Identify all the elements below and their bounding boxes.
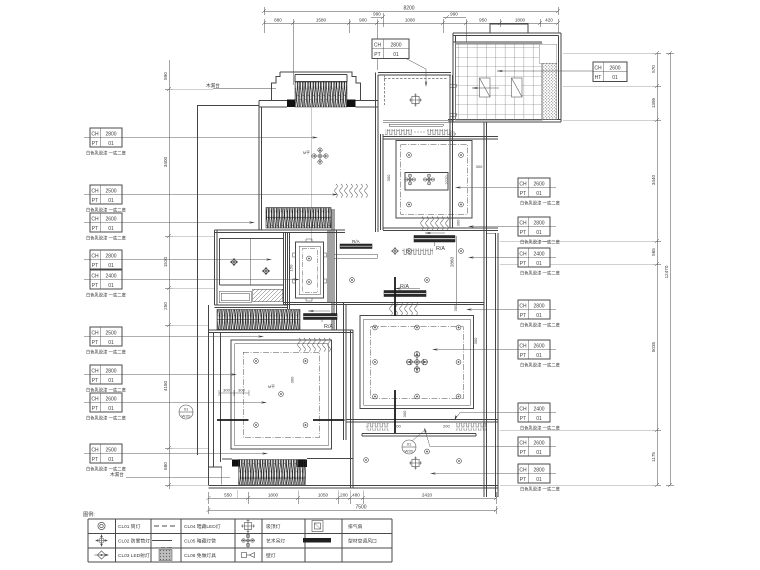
bedroom2 recess dash-dot bbox=[243, 352, 320, 437]
legend table grid bbox=[88, 519, 392, 562]
cabinet box below bathroom bbox=[219, 291, 251, 303]
svg-text:900: 900 bbox=[359, 18, 367, 23]
svg-text:2500: 2500 bbox=[105, 189, 116, 195]
svg-text:300: 300 bbox=[453, 304, 458, 311]
wardrobe hatch master bedroom bbox=[266, 208, 331, 229]
svg-text:CH: CH bbox=[594, 66, 602, 72]
svg-text:2600: 2600 bbox=[533, 182, 544, 188]
svg-text:990: 990 bbox=[373, 12, 381, 17]
balcony window rect 1 bbox=[480, 78, 491, 97]
svg-text:白色乳胶漆 一底二度: 白色乳胶漆 一底二度 bbox=[86, 387, 127, 394]
svg-text:CL06 免做灯具: CL06 免做灯具 bbox=[184, 552, 216, 559]
svg-text:01: 01 bbox=[108, 141, 114, 147]
svg-text:3440: 3440 bbox=[651, 174, 656, 185]
svg-text:01: 01 bbox=[108, 457, 114, 463]
svg-text:1800: 1800 bbox=[268, 493, 279, 498]
svg-text:白色乳胶漆 一底二度: 白色乳胶漆 一底二度 bbox=[520, 239, 561, 246]
svg-text:CH: CH bbox=[374, 43, 382, 49]
svg-text:2400: 2400 bbox=[105, 274, 116, 280]
svg-text:PT: PT bbox=[92, 263, 98, 269]
legend sym exhaust fan bbox=[312, 521, 323, 532]
bedroom2 curtain end block right bbox=[298, 460, 308, 468]
stipple strip balcony right bbox=[542, 63, 557, 120]
svg-text:2800: 2800 bbox=[533, 221, 544, 227]
legend sym CL03 LED spot bbox=[95, 551, 109, 559]
svg-text:PT: PT bbox=[520, 450, 526, 456]
svg-text:2400: 2400 bbox=[533, 407, 544, 413]
svg-text:CL05 暗藏灯管: CL05 暗藏灯管 bbox=[184, 538, 216, 545]
label R6 CH2400 bbox=[453, 403, 560, 432]
svg-text:1175: 1175 bbox=[651, 452, 656, 462]
svg-text:01: 01 bbox=[184, 407, 189, 412]
balcony window rect 2 bbox=[512, 78, 523, 97]
bedroom2 recess outer bbox=[231, 340, 332, 449]
svg-text:2500: 2500 bbox=[105, 448, 116, 454]
svg-text:890: 890 bbox=[163, 72, 168, 80]
svg-text:2600: 2600 bbox=[105, 217, 116, 223]
squiggle marks master bedroom bbox=[335, 184, 368, 198]
legend sym ceiling lamp bbox=[241, 519, 255, 533]
svg-text:2220: 2220 bbox=[444, 175, 449, 185]
svg-text:HT: HT bbox=[595, 75, 602, 81]
svg-text:250: 250 bbox=[163, 302, 168, 310]
svg-text:2800: 2800 bbox=[105, 132, 116, 138]
wall right outer pair bbox=[496, 233, 499, 497]
legend sym CL05 solid line bbox=[152, 540, 172, 542]
label L8 CH2600 bbox=[84, 393, 267, 422]
bedroom2 dim 300 300 bbox=[219, 388, 249, 397]
hall woodgrain band bbox=[217, 310, 300, 330]
svg-text:8200: 8200 bbox=[403, 6, 414, 12]
wall foyer right tabs bbox=[451, 84, 457, 116]
study downlights bbox=[407, 153, 412, 158]
svg-text:480: 480 bbox=[352, 493, 360, 498]
ceiling lamp foyer bbox=[409, 94, 422, 107]
wall right connector bbox=[487, 232, 496, 234]
svg-text:150: 150 bbox=[289, 264, 294, 271]
legend sym CL01 downlight bbox=[98, 522, 105, 529]
bottom chain extension lines bbox=[237, 490, 363, 498]
living section pole bottom bbox=[394, 390, 396, 433]
svg-text:01: 01 bbox=[108, 340, 114, 346]
svg-text:01: 01 bbox=[612, 75, 618, 81]
svg-text:01: 01 bbox=[108, 198, 114, 204]
svg-text:950: 950 bbox=[479, 18, 487, 23]
svg-text:01: 01 bbox=[108, 378, 114, 384]
svg-text:CH: CH bbox=[91, 189, 99, 195]
svg-text:W2D: W2D bbox=[182, 414, 191, 419]
left chain dimension line bbox=[165, 60, 173, 489]
svg-text:PT: PT bbox=[520, 313, 526, 319]
svg-text:2600: 2600 bbox=[105, 397, 116, 403]
svg-text:200: 200 bbox=[443, 424, 450, 429]
wall study bottom bbox=[383, 228, 498, 231]
hall downlight 2 bbox=[425, 278, 430, 283]
living castellated band right bbox=[402, 249, 433, 256]
corridor RA duct bar bbox=[304, 310, 338, 330]
svg-text:300: 300 bbox=[456, 219, 461, 226]
balcony leader arrow bbox=[497, 70, 593, 72]
svg-text:01: 01 bbox=[536, 313, 542, 319]
wall bay window master bedroom bbox=[272, 72, 361, 101]
label T1 CH2800 bbox=[372, 39, 409, 59]
svg-text:CH: CH bbox=[519, 252, 527, 258]
svg-text:CH: CH bbox=[91, 132, 99, 138]
svg-text:CH: CH bbox=[91, 274, 99, 280]
svg-text:白色乳胶漆 一底二度: 白色乳胶漆 一底二度 bbox=[86, 349, 127, 356]
study squiggles bottom bbox=[421, 217, 449, 231]
dining leader diagonal bbox=[412, 429, 426, 441]
wall bedroom2 left bbox=[209, 305, 222, 485]
wall corridor right bbox=[328, 230, 337, 330]
svg-text:01: 01 bbox=[108, 226, 114, 232]
top chain dimension line bbox=[262, 19, 560, 85]
svg-text:白色乳胶漆 一底二度: 白色乳胶漆 一底二度 bbox=[86, 415, 127, 422]
wall bedroom2 top bbox=[209, 330, 354, 333]
wall study top bbox=[383, 137, 498, 140]
bedroom2 section bar left bbox=[217, 419, 249, 421]
label L3 CH2600 bbox=[84, 213, 255, 242]
left chain extension lines bbox=[169, 89, 215, 485]
svg-text:PT: PT bbox=[92, 340, 98, 346]
wall right inner pair bbox=[484, 122, 487, 497]
label R1 CH2600 bbox=[455, 178, 561, 207]
svg-text:CL01 筒灯: CL01 筒灯 bbox=[118, 523, 141, 530]
svg-text:4180: 4180 bbox=[163, 380, 168, 391]
svg-text:300: 300 bbox=[473, 337, 478, 344]
svg-text:3400: 3400 bbox=[163, 156, 168, 167]
svg-text:壁灯: 壁灯 bbox=[266, 552, 276, 559]
living section pole top bbox=[394, 277, 396, 316]
svg-text:1395: 1395 bbox=[651, 97, 656, 108]
label R5 CH2600 bbox=[432, 340, 561, 369]
wardrobe inner line bbox=[266, 217, 331, 219]
svg-text:排气扇: 排气扇 bbox=[348, 523, 363, 530]
centerline corridor extension bbox=[310, 104, 312, 241]
corridor downlight 1 bbox=[307, 256, 312, 261]
svg-text:1580: 1580 bbox=[316, 18, 327, 23]
svg-text:2860: 2860 bbox=[450, 256, 455, 267]
bedroom2 section bar right bbox=[313, 419, 345, 421]
svg-text:M平: M平 bbox=[268, 385, 275, 389]
svg-text:CH: CH bbox=[519, 441, 527, 447]
corridor recess dash-dot bbox=[302, 249, 317, 293]
right chain extension lines bbox=[500, 53, 657, 485]
bedroom2 curtain inner line bbox=[240, 477, 305, 479]
legend sym CL02 fogproof bbox=[96, 535, 108, 547]
svg-text:2600: 2600 bbox=[533, 344, 544, 350]
svg-text:12470: 12470 bbox=[664, 265, 669, 278]
svg-text:PT: PT bbox=[520, 191, 526, 197]
living pelmet lines left bbox=[334, 254, 377, 259]
leader from top label to foyer lamp bbox=[406, 59, 427, 88]
svg-text:PT: PT bbox=[520, 477, 526, 483]
svg-text:艺术吊灯: 艺术吊灯 bbox=[266, 538, 285, 545]
svg-text:300: 300 bbox=[290, 376, 295, 383]
dining downlight 2 bbox=[457, 459, 462, 464]
svg-text:R/A: R/A bbox=[436, 246, 445, 252]
svg-text:PT: PT bbox=[92, 283, 98, 289]
svg-text:白色乳胶漆 一底二度: 白色乳胶漆 一底二度 bbox=[520, 322, 561, 329]
svg-text:PT: PT bbox=[92, 226, 98, 232]
svg-text:CH: CH bbox=[91, 254, 99, 260]
wall living room bottom / dining top bbox=[346, 420, 498, 423]
bedroom2 downlights bbox=[254, 359, 308, 428]
label L1 CH2800 bbox=[84, 128, 318, 157]
wall bottom exterior bbox=[209, 486, 499, 489]
corridor recess mid bbox=[299, 246, 320, 295]
svg-text:2800: 2800 bbox=[533, 468, 544, 474]
svg-text:2800: 2800 bbox=[533, 304, 544, 310]
svg-text:白色乳胶漆 一底二度: 白色乳胶漆 一底二度 bbox=[520, 425, 561, 432]
legend sym art chandelier bbox=[241, 534, 255, 548]
bathroom divider bbox=[250, 239, 252, 286]
svg-text:PT: PT bbox=[92, 406, 98, 412]
corridor side tabs bbox=[293, 239, 327, 301]
dining detail bubble bbox=[402, 440, 416, 454]
svg-text:565: 565 bbox=[651, 248, 656, 256]
dining castellated band left bbox=[366, 423, 389, 431]
dining downlight 1 bbox=[364, 458, 369, 463]
bedroom2 curtain end block left bbox=[232, 460, 240, 467]
svg-text:2500: 2500 bbox=[105, 331, 116, 337]
svg-text:420: 420 bbox=[545, 18, 553, 23]
svg-text:300: 300 bbox=[386, 174, 391, 181]
svg-text:M平: M平 bbox=[303, 151, 310, 155]
svg-text:01: 01 bbox=[536, 450, 542, 456]
svg-text:300: 300 bbox=[238, 388, 245, 393]
svg-text:570: 570 bbox=[651, 65, 656, 73]
living chandelier bbox=[406, 351, 428, 373]
label L4 CH2800 bbox=[84, 250, 272, 269]
svg-text:5035: 5035 bbox=[651, 341, 656, 352]
svg-text:PT: PT bbox=[92, 141, 98, 147]
svg-text:990: 990 bbox=[450, 12, 458, 17]
svg-text:CH: CH bbox=[519, 221, 527, 227]
bathroom inner walls bbox=[220, 233, 286, 306]
svg-text:PT: PT bbox=[520, 261, 526, 267]
wall foyer top bbox=[378, 73, 451, 76]
in-plan vertical dim 2860 bbox=[455, 236, 457, 305]
svg-text:PT: PT bbox=[520, 416, 526, 422]
dining downlight 3 bbox=[425, 449, 430, 454]
wall corridor left pair bbox=[288, 209, 335, 330]
dining pelmet double bar bbox=[362, 434, 476, 437]
study recess dash-dot rect bbox=[401, 145, 468, 215]
living recess dash-dot bbox=[371, 327, 464, 399]
svg-text:300: 300 bbox=[402, 410, 407, 417]
wall master bedroom top bbox=[259, 101, 378, 108]
curtain hatch bay master bedroom bbox=[295, 82, 347, 107]
svg-text:CH: CH bbox=[91, 331, 99, 337]
svg-text:200: 200 bbox=[340, 493, 348, 498]
fogproof light left of study RA bbox=[391, 247, 399, 255]
label L6 CH2500 bbox=[84, 327, 264, 356]
study centre lamp plate bbox=[405, 173, 448, 191]
top 990 sub dimension ticks bbox=[371, 13, 466, 27]
study recess outer rect bbox=[396, 141, 472, 219]
svg-text:图例:: 图例: bbox=[83, 510, 95, 518]
svg-text:01: 01 bbox=[536, 191, 542, 197]
svg-text:2600: 2600 bbox=[609, 66, 620, 72]
svg-text:白色乳胶漆 一底二度: 白色乳胶漆 一底二度 bbox=[520, 486, 561, 493]
wall bathroom-row bottom bbox=[215, 305, 289, 308]
wall shelf line top-left bbox=[213, 88, 276, 90]
label T2 CH2600 bbox=[593, 62, 627, 82]
svg-text:1080: 1080 bbox=[405, 18, 416, 23]
svg-text:200: 200 bbox=[394, 424, 401, 429]
svg-text:PT: PT bbox=[520, 353, 526, 359]
bottom overall dimension line 7500 bbox=[207, 506, 499, 514]
svg-text:R/A: R/A bbox=[352, 239, 361, 244]
svg-text:R/A: R/A bbox=[400, 284, 409, 290]
living squiggles bbox=[390, 302, 418, 316]
living downlights 3x3 bbox=[373, 325, 461, 399]
detail bubble left bbox=[179, 405, 193, 419]
svg-text:W2D: W2D bbox=[405, 449, 414, 454]
svg-text:PT: PT bbox=[92, 457, 98, 463]
svg-text:2420: 2420 bbox=[422, 493, 433, 498]
svg-text:CH: CH bbox=[519, 304, 527, 310]
wall bedroom2 right bbox=[351, 330, 354, 488]
svg-text:白色乳胶漆 一底二度: 白色乳胶漆 一底二度 bbox=[86, 292, 127, 299]
study downlights below bbox=[407, 249, 412, 254]
svg-text:01: 01 bbox=[108, 406, 114, 412]
svg-text:R/A: R/A bbox=[324, 324, 333, 330]
study chandeliers bbox=[405, 174, 416, 185]
legend sym CL06 hatch box bbox=[159, 548, 172, 561]
wall living room left bbox=[344, 303, 347, 441]
svg-text:PT: PT bbox=[92, 198, 98, 204]
svg-text:2800: 2800 bbox=[390, 43, 401, 49]
corridor downlight 2 bbox=[307, 280, 312, 285]
svg-text:550: 550 bbox=[224, 493, 232, 498]
svg-text:01: 01 bbox=[536, 477, 542, 483]
label L5 CH2400 bbox=[84, 270, 300, 299]
svg-text:PT: PT bbox=[374, 52, 380, 58]
svg-text:CH: CH bbox=[91, 369, 99, 375]
curtain box end block right bbox=[347, 100, 356, 108]
svg-text:01: 01 bbox=[393, 52, 399, 58]
study RA duct bar bbox=[414, 232, 455, 252]
svg-text:型材空调风口: 型材空调风口 bbox=[348, 538, 377, 545]
svg-text:1050: 1050 bbox=[318, 493, 329, 498]
svg-text:CL04 暗藏LED灯: CL04 暗藏LED灯 bbox=[184, 523, 221, 530]
living recess outer bbox=[360, 316, 474, 409]
wall foyer dashed lines bbox=[384, 78, 448, 80]
living RA duct bar left bbox=[340, 239, 372, 249]
svg-text:木漏台: 木漏台 bbox=[206, 82, 220, 89]
svg-text:白色乳胶漆 一底二度: 白色乳胶漆 一底二度 bbox=[520, 200, 561, 207]
svg-text:2400: 2400 bbox=[533, 252, 544, 258]
svg-text:2600: 2600 bbox=[533, 441, 544, 447]
wall bathroom-row top (bedroom bottom) bbox=[215, 230, 346, 233]
living recess mid bbox=[364, 319, 471, 405]
wall study left bbox=[381, 134, 384, 230]
svg-text:7500: 7500 bbox=[355, 505, 366, 511]
svg-text:木漏台: 木漏台 bbox=[110, 471, 124, 478]
svg-text:吸顶灯: 吸顶灯 bbox=[266, 523, 281, 530]
svg-text:白色乳胶漆 一底二度: 白色乳胶漆 一底二度 bbox=[86, 150, 127, 157]
svg-text:01: 01 bbox=[536, 230, 542, 236]
svg-text:01: 01 bbox=[108, 263, 114, 269]
svg-text:PT: PT bbox=[520, 230, 526, 236]
hall band mid line bbox=[217, 319, 300, 321]
legend sym CL04 dashed line bbox=[154, 525, 175, 527]
svg-text:01: 01 bbox=[108, 283, 114, 289]
legend sym ac vent bar bbox=[303, 538, 331, 543]
wall balcony outline bbox=[448, 33, 561, 122]
right overall dimension line 12470 bbox=[666, 51, 674, 487]
svg-text:01: 01 bbox=[536, 353, 542, 359]
svg-text:300: 300 bbox=[476, 164, 483, 169]
svg-text:CH: CH bbox=[519, 407, 527, 413]
svg-text:CH: CH bbox=[91, 448, 99, 454]
wall foyer right bbox=[450, 75, 453, 228]
wall foyer bottom lines bbox=[383, 121, 453, 127]
corridor recess outer bbox=[296, 242, 324, 298]
svg-text:白色乳胶漆 一底二度: 白色乳胶漆 一底二度 bbox=[86, 207, 127, 214]
wall balcony top bump bbox=[490, 24, 528, 33]
living RA duct bar top bbox=[384, 284, 426, 297]
svg-text:白色乳胶漆 一底二度: 白色乳胶漆 一底二度 bbox=[86, 235, 127, 242]
svg-text:300: 300 bbox=[223, 388, 230, 393]
svg-text:CH: CH bbox=[519, 468, 527, 474]
bedroom2 recess mid bbox=[235, 344, 329, 446]
svg-text:1800: 1800 bbox=[515, 18, 526, 23]
svg-text:PT: PT bbox=[92, 378, 98, 384]
curtain box end block left bbox=[287, 100, 295, 108]
svg-text:CH: CH bbox=[91, 397, 99, 403]
bedroom2 curtain hatch bbox=[239, 460, 306, 485]
label L7 CH2800 bbox=[84, 365, 237, 394]
balcony small arrow bbox=[472, 87, 499, 89]
label L9 CH2500 bbox=[84, 444, 268, 473]
svg-text:680: 680 bbox=[163, 462, 168, 470]
label R7 CH2600 bbox=[423, 427, 556, 456]
label R3 CH2400 bbox=[468, 248, 561, 277]
svg-text:CL03 LED射灯: CL03 LED射灯 bbox=[118, 552, 150, 559]
svg-text:880: 880 bbox=[274, 18, 282, 23]
svg-text:CH: CH bbox=[519, 344, 527, 350]
svg-text:1520: 1520 bbox=[163, 256, 168, 267]
dining castellated band right bbox=[456, 423, 487, 431]
svg-text:2800: 2800 bbox=[105, 369, 116, 375]
label R8 CH2800 bbox=[430, 464, 561, 493]
castellated band foyer bottom bbox=[385, 129, 412, 136]
legend sym wall lamp bbox=[242, 553, 255, 558]
label R4 CH2800 bbox=[466, 300, 561, 329]
tile grid balcony floor bbox=[456, 44, 543, 120]
label R2 CH2800 bbox=[468, 217, 561, 246]
wall left mid (bathroom block) bbox=[215, 230, 218, 305]
svg-text:CH: CH bbox=[519, 182, 527, 188]
wall master bedroom right bbox=[376, 73, 379, 233]
bathroom fogproof light 2 bbox=[262, 267, 270, 275]
svg-text:白色乳胶漆 一底二度: 白色乳胶漆 一底二度 bbox=[86, 466, 127, 473]
bathroom fogproof light 1 bbox=[230, 258, 238, 266]
bedroom2 bay outline bbox=[222, 458, 353, 461]
wall master bedroom left bbox=[259, 101, 262, 231]
hall downlight bbox=[350, 278, 355, 283]
bedroom2 squiggles bbox=[298, 338, 331, 352]
wall living room top bbox=[284, 303, 484, 305]
white notch balcony top right bbox=[539, 44, 557, 63]
bottom chain dimension line bbox=[207, 492, 499, 504]
chandelier master bedroom bbox=[312, 148, 329, 165]
svg-text:白色乳胶漆 一底二度: 白色乳胶漆 一底二度 bbox=[520, 362, 561, 369]
svg-text:CL02 防雾筒灯: CL02 防雾筒灯 bbox=[118, 538, 150, 545]
